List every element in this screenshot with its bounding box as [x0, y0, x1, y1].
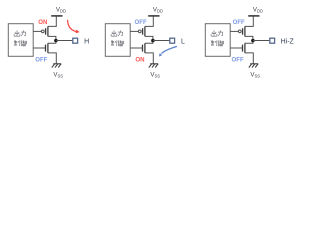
PMOS Q5 gate bubble: [238, 30, 241, 33]
wire: U1 to NMOS gate: [33, 47, 45, 49]
PMOS Q5 channel: [244, 26, 246, 36]
terminal square (output pin): [73, 38, 78, 43]
wire: Q3 drain to output node: [145, 36, 153, 40]
wire: output node to terminal: [153, 40, 169, 42]
wire: Q5 drain to output node: [245, 36, 253, 40]
NMOS Q6 channel: [244, 43, 246, 53]
PMOS Q3 channel: [144, 26, 146, 36]
wire: U2 to NMOS gate: [130, 47, 142, 49]
wire: output node to terminal: [56, 40, 72, 42]
wire: Q5 source to VDD: [245, 16, 253, 27]
svg-text:VSS: VSS: [250, 72, 260, 79]
node: output junction: [151, 39, 155, 43]
ground VSS symbol: [149, 64, 158, 68]
label 出力 (output, line 1): [211, 30, 223, 36]
wire: Q6 drain to output node: [245, 41, 253, 44]
wire: output node to terminal: [253, 40, 269, 42]
svg-text:VSS: VSS: [150, 72, 160, 79]
svg-text:OFF: OFF: [233, 19, 245, 26]
PMOS Q3 gate plate: [142, 28, 144, 35]
current arrow (output to VSS, blue): [162, 46, 177, 53]
label 制御 (control, line 2): [14, 40, 27, 46]
NMOS Q6 gate plate: [242, 45, 244, 52]
wire: Q2 source to VSS: [48, 53, 56, 64]
svg-text:VDD: VDD: [253, 6, 263, 13]
node: output junction: [251, 39, 255, 43]
svg-text:L: L: [181, 38, 185, 45]
NMOS Q2 gate plate: [45, 45, 47, 52]
node: output junction: [54, 39, 58, 43]
wire: U2 to PMOS gate: [130, 30, 138, 32]
label 制御 (control, line 2): [111, 40, 124, 46]
wire: Q1 source to VDD: [48, 16, 56, 27]
svg-text:ON: ON: [135, 57, 144, 64]
svg-text:OFF: OFF: [35, 57, 47, 64]
ground VSS symbol: [52, 64, 61, 68]
wire: Q3 source to VDD: [145, 16, 153, 27]
wire: U3 to NMOS gate: [230, 47, 242, 49]
svg-text:VDD: VDD: [56, 6, 66, 13]
PMOS Q1 channel: [47, 26, 49, 36]
PMOS Q1 gate bubble: [41, 30, 44, 33]
PMOS Q5 gate plate: [242, 28, 244, 35]
svg-text:OFF: OFF: [135, 19, 147, 26]
output-control block U2: [105, 24, 130, 57]
label 制御 (control, line 2): [211, 40, 224, 46]
svg-text:ON: ON: [38, 19, 47, 26]
power VDD bar: [51, 15, 62, 17]
power VDD bar: [248, 15, 259, 17]
wire: Q6 source to VSS: [245, 53, 253, 64]
wire: Q1 drain to output node: [48, 36, 56, 40]
wire: Q4 source to VSS: [145, 53, 153, 64]
NMOS Q2 channel: [47, 43, 49, 53]
output-control block U3: [205, 24, 230, 57]
label 出力 (output, line 1): [14, 30, 26, 36]
terminal square (output pin): [170, 38, 175, 43]
PMOS Q1 gate plate: [45, 28, 47, 35]
output-control block U1: [8, 24, 33, 57]
svg-text:OFF: OFF: [232, 57, 244, 64]
svg-text:VDD: VDD: [153, 6, 163, 13]
label 出力 (output, line 1): [111, 30, 123, 36]
NMOS Q4 gate plate: [142, 45, 144, 52]
wire: Q4 drain to output node: [145, 41, 153, 44]
wire: U1 to PMOS gate: [33, 30, 41, 32]
svg-text:H: H: [84, 38, 89, 45]
terminal square (output pin): [270, 38, 275, 43]
wire: U3 to PMOS gate: [230, 30, 238, 32]
power VDD bar: [148, 15, 159, 17]
PMOS Q3 gate bubble: [138, 30, 141, 33]
ground VSS symbol: [249, 64, 258, 68]
current arrow (VDD to output, red): [68, 20, 76, 32]
wire: Q2 drain to output node: [48, 41, 56, 44]
svg-text:Hi-Z: Hi-Z: [281, 38, 295, 45]
svg-text:VSS: VSS: [53, 72, 63, 79]
NMOS Q4 channel: [144, 43, 146, 53]
